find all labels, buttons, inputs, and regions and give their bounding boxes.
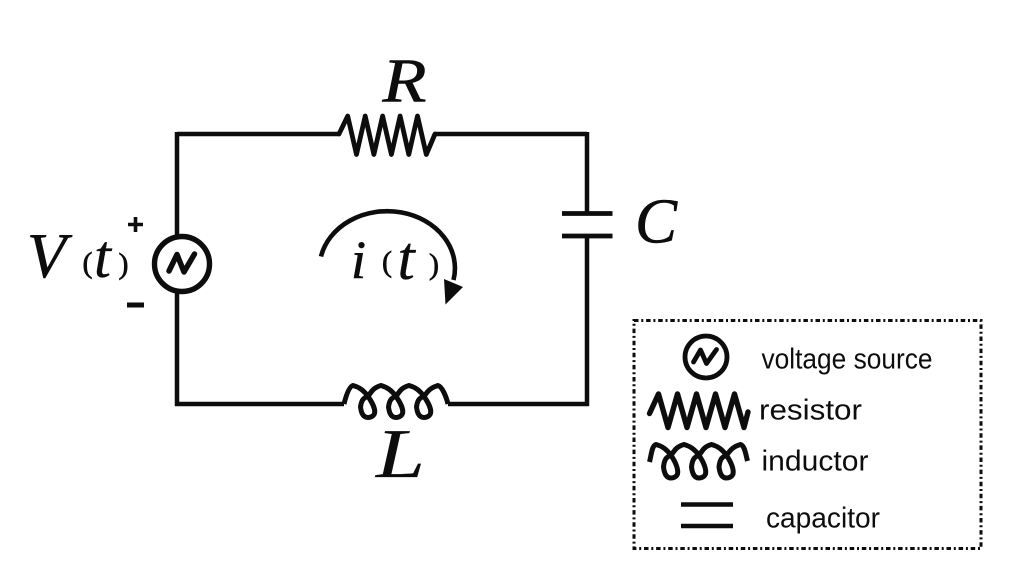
voltage source squiggle — [169, 254, 195, 272]
svg-text:t: t — [398, 225, 417, 293]
svg-text:V: V — [27, 220, 73, 291]
svg-text:resistor: resistor — [759, 395, 862, 427]
svg-text:(: ( — [83, 247, 93, 280]
legend dashed box — [634, 321, 981, 549]
capacitor C plates — [562, 214, 613, 237]
svg-text:C: C — [635, 186, 678, 257]
svg-text:R: R — [381, 48, 426, 116]
minus sign — [127, 303, 144, 308]
wire bottom-left horizontal — [175, 402, 344, 407]
svg-text:): ) — [429, 248, 439, 281]
svg-text:(: ( — [382, 246, 392, 279]
legend resistor symbol — [650, 394, 749, 428]
wire top-left horizontal — [177, 132, 339, 137]
current loop arrowhead — [444, 279, 463, 305]
legend capacitor symbol — [681, 505, 733, 527]
svg-text:L: L — [375, 416, 425, 493]
legend voltage source squiggle — [694, 350, 717, 364]
legend inductor symbol — [650, 445, 748, 479]
svg-text:capacitor: capacitor — [766, 503, 880, 535]
svg-text:inductor: inductor — [762, 446, 869, 478]
wire right vertical upper — [585, 132, 590, 213]
wire left vertical upper — [175, 132, 180, 238]
svg-text:i: i — [351, 230, 366, 290]
legend voltage source circle — [685, 336, 727, 378]
wire left vertical lower — [175, 291, 180, 406]
plus sign — [128, 217, 143, 232]
resistor R — [339, 116, 435, 155]
current loop arc — [321, 211, 455, 280]
wire top-right horizontal — [435, 132, 587, 137]
inductor L — [344, 386, 448, 418]
voltage source V1 circle — [155, 237, 210, 292]
wire right vertical lower — [585, 236, 590, 406]
svg-text:): ) — [119, 248, 129, 281]
svg-text:voltage source: voltage source — [762, 344, 933, 376]
svg-text:t: t — [94, 224, 113, 291]
wire bottom-right horizontal — [448, 402, 589, 407]
